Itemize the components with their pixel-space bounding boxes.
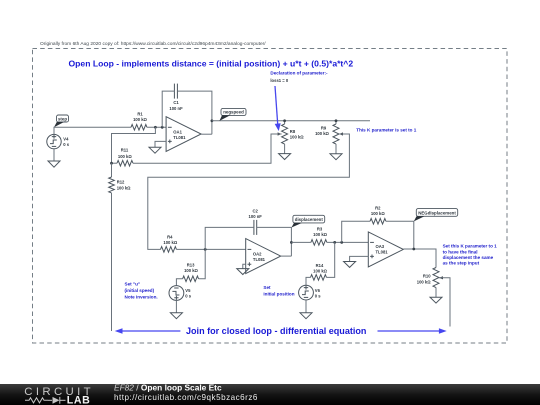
wire R13 to V5 <box>176 279 182 286</box>
ground below V6 <box>300 313 312 319</box>
resistor R13 <box>183 249 206 281</box>
svg-text:initial position: initial position <box>263 292 294 297</box>
resistor R4 <box>161 234 178 252</box>
blue note set initial position <box>263 285 294 296</box>
svg-text:100 kΩ: 100 kΩ <box>163 240 177 245</box>
ground at OA2 + <box>237 269 249 275</box>
resistor R2 <box>370 205 386 224</box>
svg-text:TL081: TL081 <box>376 250 389 255</box>
wire OA1 + input to ground <box>155 141 166 147</box>
svg-text:TL081: TL081 <box>173 135 186 140</box>
svg-text:displacement the same: displacement the same <box>443 255 494 260</box>
wire R1 to op-amp input <box>147 126 166 128</box>
resistor R1 <box>131 111 148 130</box>
svg-text:to have the final: to have the final <box>443 249 478 254</box>
svg-text:100 kΩ: 100 kΩ <box>371 211 385 216</box>
ground at OA3 + <box>344 262 356 268</box>
svg-text:R13: R13 <box>187 262 195 267</box>
ground below V4 <box>48 161 60 167</box>
svg-text:100 kΩ: 100 kΩ <box>184 268 198 273</box>
svg-text:100 kΩ: 100 kΩ <box>315 131 329 136</box>
svg-text:Originally from 6th Aug 2020 c: Originally from 6th Aug 2020 copy of: ht… <box>40 41 266 47</box>
capacitor C2 <box>249 209 263 235</box>
svg-text:R4: R4 <box>167 234 173 239</box>
wire input node down-left to R11 node <box>112 127 156 163</box>
node A dot <box>154 126 157 129</box>
svg-text:negspeed: negspeed <box>223 110 244 115</box>
node OA3 out dot <box>412 248 415 251</box>
blue arrow to R8 wiper <box>275 86 281 131</box>
op-amp OA2 <box>246 239 281 274</box>
svg-text:http://circuitlab.com/c9qk5bza: http://circuitlab.com/c9qk5bzac6rz6 <box>114 393 258 402</box>
wire OA1 output <box>201 133 212 135</box>
ground at OA1 + <box>149 147 161 153</box>
svg-text:100 kΩ: 100 kΩ <box>117 185 131 190</box>
svg-text:R9: R9 <box>321 126 327 131</box>
resistor R11 <box>117 148 133 166</box>
node B dot <box>161 126 164 129</box>
wire OA2 output <box>281 255 292 257</box>
svg-text:V4: V4 <box>63 136 69 141</box>
wire R14 left to V6 <box>306 277 311 285</box>
resistor R12 <box>109 163 131 193</box>
svg-text:Open Loop - implements distanc: Open Loop - implements distance = (initi… <box>69 58 354 68</box>
node R11/R12 dot <box>110 162 113 165</box>
svg-text:R11: R11 <box>121 148 129 153</box>
svg-text:Declaration of parameter:-: Declaration of parameter:- <box>270 71 328 76</box>
ground below R10 <box>430 297 442 303</box>
svg-text:0 s: 0 s <box>315 294 321 299</box>
node step label <box>54 115 69 127</box>
voltage source V6 <box>299 285 322 300</box>
svg-text:loss1 = 0: loss1 = 0 <box>270 78 288 83</box>
wire C1 feedback loop <box>162 91 212 134</box>
wire OA3 output to R10 <box>403 249 436 268</box>
svg-text:R3: R3 <box>317 226 323 231</box>
svg-text:TL081: TL081 <box>253 257 266 262</box>
node displacement label <box>292 215 325 227</box>
blue arrow right join <box>378 328 447 334</box>
footer bar <box>0 384 540 405</box>
svg-text:0 s: 0 s <box>63 142 69 147</box>
svg-text:R1: R1 <box>137 111 143 116</box>
voltage source V5 <box>169 286 192 301</box>
voltage source V4 <box>47 134 70 148</box>
wire R9 wiper down to R4 <box>148 134 350 249</box>
svg-text:V6: V6 <box>315 288 321 293</box>
svg-text:V5: V5 <box>185 288 191 293</box>
svg-text:100 kΩ: 100 kΩ <box>290 135 304 140</box>
svg-text:0 s: 0 s <box>185 294 191 299</box>
svg-text:OA3: OA3 <box>376 244 385 249</box>
svg-text:LAB: LAB <box>67 394 91 405</box>
wire V4 bottom <box>53 149 55 161</box>
node R8 bus dot <box>283 119 286 122</box>
svg-text:100 kΩ: 100 kΩ <box>313 232 327 237</box>
ground below R8 <box>279 154 291 160</box>
ground below R9 <box>330 154 342 160</box>
op-amp OA1 <box>166 117 201 152</box>
svg-text:Set this K parameter to 1: Set this K parameter to 1 <box>443 244 498 249</box>
node R2 tap dot <box>340 241 343 244</box>
svg-text:R10: R10 <box>423 274 431 279</box>
svg-text:NEGdisplacement: NEGdisplacement <box>418 210 456 215</box>
svg-text:R12: R12 <box>117 180 125 185</box>
wire R8 wiper to R11 <box>133 134 282 163</box>
wire R4 to OA2 input <box>177 248 246 250</box>
svg-text:100 kΩ: 100 kΩ <box>313 268 327 273</box>
wire V5 to ground <box>175 300 177 312</box>
svg-text:OA2: OA2 <box>253 252 262 257</box>
wire R11 left to node <box>112 162 118 164</box>
blue note set this K <box>443 244 498 266</box>
svg-text:100 kΩ: 100 kΩ <box>118 154 132 159</box>
node R9 bus dot <box>335 119 338 122</box>
svg-text:Join for closed loop - differe: Join for closed loop - differential equa… <box>186 326 366 336</box>
svg-text:displacement: displacement <box>295 217 324 222</box>
wire R14 right up to node <box>327 242 335 277</box>
svg-text:EF82 / Open loop Scale Etc: EF82 / Open loop Scale Etc <box>114 383 222 393</box>
blue arrow left join <box>115 328 181 334</box>
svg-text:C2: C2 <box>253 209 259 214</box>
wire OA2 + input to ground <box>243 264 246 268</box>
svg-text:C1: C1 <box>173 100 179 105</box>
wire V4 top to node <box>54 127 131 134</box>
node negspeed label <box>219 108 246 121</box>
svg-text:R14: R14 <box>316 263 324 268</box>
wire R10 wiper down open end <box>439 278 450 327</box>
wire V6 to ground <box>305 300 307 313</box>
wire R12 bottom open end <box>111 193 113 331</box>
potentiometer R8 <box>278 121 305 154</box>
svg-text:100 kΩ: 100 kΩ <box>133 117 147 122</box>
resistor R14 <box>311 263 328 280</box>
blue note set u <box>125 282 158 300</box>
potentiometer R9 <box>315 121 343 154</box>
node OA2 out dot <box>290 241 293 244</box>
svg-text:Set: Set <box>263 285 271 290</box>
resistor R3 <box>311 226 328 245</box>
svg-text:OA1: OA1 <box>173 129 182 134</box>
node NEGdisplacement label <box>414 209 458 222</box>
svg-text:Note inversion.: Note inversion. <box>125 295 158 300</box>
svg-text:(initial speed): (initial speed) <box>125 288 155 293</box>
wire negspeed bus <box>212 120 370 122</box>
node R14 tap dot <box>333 241 336 244</box>
capacitor C1 <box>169 84 183 111</box>
wire R2 feedback loop <box>342 221 414 249</box>
svg-text:100 nF: 100 nF <box>169 106 183 111</box>
node OA2 input dot <box>204 248 207 251</box>
svg-text:100 nF: 100 nF <box>249 214 263 219</box>
logo resistor diode glyph <box>25 397 66 404</box>
svg-text:Set "u": Set "u" <box>125 282 141 287</box>
ground below V5 <box>170 313 182 319</box>
dashed border frame <box>33 49 508 344</box>
op-amp OA3 <box>368 232 403 267</box>
node output junction dot <box>211 119 214 122</box>
svg-text:R2: R2 <box>375 205 381 210</box>
potentiometer R10 <box>417 268 443 298</box>
wire OA3 + input to ground <box>350 256 369 261</box>
wire C2 feedback loop <box>205 227 291 256</box>
svg-text:step: step <box>58 116 67 121</box>
svg-text:R8: R8 <box>290 129 296 134</box>
svg-text:as the step input: as the step input <box>443 261 480 266</box>
svg-text:This K parameter is set to 1: This K parameter is set to 1 <box>356 128 416 133</box>
svg-text:100 kΩ: 100 kΩ <box>417 280 431 285</box>
wire OA2 out to R3 to OA3 input <box>291 241 368 243</box>
